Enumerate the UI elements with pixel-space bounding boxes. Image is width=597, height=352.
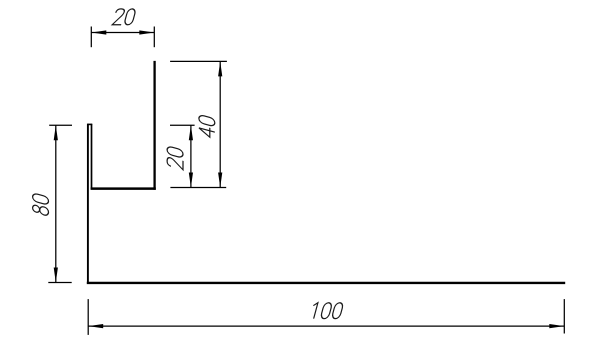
shared bottom extension line for 20/40 xyxy=(170,187,226,189)
dimension 100: text 100 xyxy=(310,303,344,319)
dimension 20 top: dimension line xyxy=(91,32,154,34)
profile bottom flange (100 leg) xyxy=(87,282,565,284)
dimension 80: top extension line xyxy=(49,124,72,126)
dimension 20 vertical: bottom arrowhead xyxy=(189,173,193,188)
dimension 100: right arrowhead xyxy=(549,324,564,328)
dimension 40: text 40 (rotated) xyxy=(199,114,215,138)
dimension 80: dimension line xyxy=(55,125,57,282)
dimension 20 vertical: top extension line xyxy=(170,124,195,126)
dimension 20 vertical: dimension line xyxy=(190,125,192,187)
dimension 80: bottom extension line xyxy=(48,282,71,284)
dimension 20 vertical: top arrowhead xyxy=(189,125,193,140)
profile right upstand (40 leg) xyxy=(153,61,155,190)
dimension 100: left arrowhead xyxy=(88,324,103,328)
dimension 100: left extension line xyxy=(87,299,89,335)
dimension 20 top: left arrowhead xyxy=(91,30,106,34)
dimension 40: top arrowhead xyxy=(218,61,222,76)
dimension 40: top extension line xyxy=(170,60,227,62)
profile hem inner return (20 leg) xyxy=(91,124,93,190)
dimension 20 top: right arrowhead xyxy=(139,30,154,34)
dimension 80: bottom arrowhead xyxy=(54,268,58,283)
dimension 100: right extension line xyxy=(563,299,565,333)
dimension 20 vertical: text 20 (rotated) xyxy=(167,146,183,170)
dimension 100: dimension line xyxy=(88,325,564,327)
dimension 20 top: extension lines xyxy=(91,27,154,48)
dimension 40: bottom arrowhead xyxy=(218,173,222,188)
profile hem top fold cap xyxy=(87,123,92,125)
profile channel bottom (20 web) xyxy=(91,187,156,190)
dimension 80: text 80 (rotated) xyxy=(33,193,49,216)
dimension 40: dimension line xyxy=(219,61,221,187)
profile left web (80 leg) xyxy=(87,124,89,284)
dimension 80: top arrowhead xyxy=(54,125,58,140)
dimension 20 top: text 20 xyxy=(112,9,136,25)
